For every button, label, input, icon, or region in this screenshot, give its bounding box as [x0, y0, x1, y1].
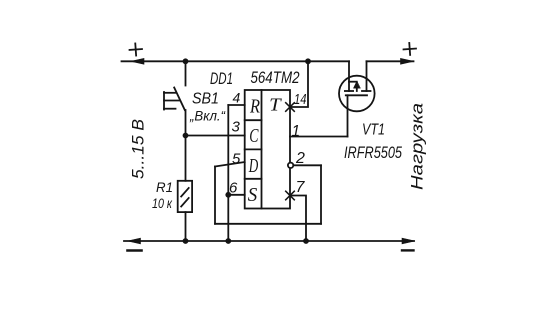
wire pin5 D input [215, 162, 245, 167]
svg-text:7: 7 [296, 179, 306, 196]
transistor VT1 substrate arrow [356, 85, 358, 91]
svg-text:IRFR5505: IRFR5505 [344, 144, 403, 162]
node pin7 X power mark [286, 191, 295, 200]
svg-text:10 к: 10 к [152, 196, 172, 211]
resistor R1 body [178, 181, 192, 212]
wire pin1 Q output to gate [290, 136, 348, 138]
node minus bottom-left [128, 249, 142, 252]
wire switch branch from top rail [185, 61, 187, 85]
IC DD1 cell divider C/D [245, 148, 262, 150]
wire pin14 to top rail [290, 61, 308, 107]
wire bottom negative rail [124, 240, 414, 242]
node plus top-left [129, 43, 142, 56]
wire top positive rail [122, 60, 350, 62]
svg-text:R: R [249, 97, 260, 118]
node bottom-right arrow [402, 238, 415, 244]
switch SB1 actuator button [164, 92, 180, 110]
switch SB1 contact [174, 88, 185, 111]
svg-text:T: T [269, 95, 283, 115]
wire top rail right segment to load [367, 60, 414, 62]
integrated circuit DD1 body [245, 90, 290, 209]
node top rail switch junction dot [183, 58, 189, 64]
svg-text:5...15 В: 5...15 В [129, 119, 148, 179]
wire pin7 to bottom rail [290, 196, 306, 242]
svg-text:S: S [248, 185, 258, 206]
node plus top-right [403, 43, 416, 56]
svg-text:564ТМ2: 564ТМ2 [251, 69, 300, 87]
svg-text:C: C [249, 126, 259, 147]
wire switch to R1 [185, 110, 187, 181]
wire ground vertical R and S to rail [227, 105, 229, 241]
wire feedback left riser [214, 167, 216, 224]
wire pin2 inverted output [294, 164, 322, 166]
wire pin3 C input from switch node [186, 135, 245, 137]
svg-text:1: 1 [292, 123, 301, 140]
transistor VT1 source contact [345, 90, 353, 92]
wire feedback bottom run [215, 223, 321, 225]
node top-left arrow [131, 58, 144, 64]
node pin6 junction dot [225, 192, 231, 198]
svg-text:VT1: VT1 [362, 122, 385, 139]
node pin14 X power mark [286, 103, 295, 112]
wire R1 to bottom rail [185, 212, 187, 241]
IC DD1 left column divider [261, 90, 263, 209]
node pin2 inversion bubble [288, 163, 293, 168]
node top-right arrow [401, 58, 414, 64]
svg-text:Нагрузка: Нагрузка [408, 103, 427, 190]
wire feedback right riser to pin2 [320, 165, 322, 224]
node bottom-left arrow [128, 238, 141, 244]
node ground rail junction dot [225, 238, 231, 244]
svg-text:2: 2 [295, 150, 305, 167]
transistor VT1 source lead [348, 61, 350, 91]
transistor VT1 drain lead [366, 61, 368, 91]
node pin7 rail junction dot [303, 238, 309, 244]
transistor VT1 gate lead [347, 95, 349, 136]
svg-text:R1: R1 [156, 180, 173, 195]
node minus bottom-right [402, 249, 414, 251]
wire pin4 R input [228, 104, 244, 106]
transistor VT1 circle [339, 76, 375, 112]
svg-text:SB1: SB1 [192, 91, 219, 108]
IC DD1 cell divider R/C [245, 119, 262, 121]
svg-text:DD1: DD1 [210, 70, 233, 88]
transistor VT1 drain contact [362, 90, 371, 92]
svg-text:6: 6 [229, 180, 238, 197]
svg-text:„Вкл.“: „Вкл.“ [189, 108, 226, 124]
transistor VT1 gate bar [346, 94, 367, 96]
svg-text:14: 14 [294, 92, 307, 108]
IC DD1 cell divider D/S [245, 178, 262, 180]
svg-text:3: 3 [232, 119, 241, 136]
wire pin6 S input [228, 194, 244, 196]
svg-text:D: D [248, 156, 258, 177]
node switch-R1-C junction dot [183, 133, 189, 139]
resistor R1 power marks [181, 188, 189, 197]
transistor VT1 substrate link [349, 81, 357, 83]
svg-text:5: 5 [232, 151, 241, 168]
svg-text:4: 4 [233, 90, 241, 106]
node pin14 rail junction dot [305, 58, 311, 64]
node R1 bottom rail junction dot [183, 238, 189, 244]
